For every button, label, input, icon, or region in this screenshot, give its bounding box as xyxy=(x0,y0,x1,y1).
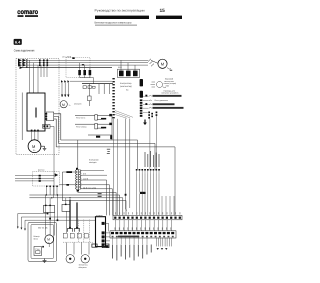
legend row 4 xyxy=(149,107,184,109)
controller left terminal column X3 xyxy=(112,78,114,118)
terminal strip X1 upper xyxy=(113,215,182,219)
dashed box around KM2 xyxy=(66,58,90,78)
svg-text:Схема подключения: Схема подключения xyxy=(14,48,35,52)
connector XP2 xyxy=(43,125,55,196)
contactor KM3 frame xyxy=(118,69,140,77)
svg-text:клеммы: клеммы xyxy=(96,215,103,217)
down arrow bold xyxy=(143,120,147,126)
relay KM1 coil xyxy=(43,205,54,212)
motor M4 xyxy=(42,235,53,248)
filter dashed box Z1 xyxy=(33,172,60,187)
svg-text:W1 V1 U1: W1 V1 U1 xyxy=(38,227,48,230)
svg-text:6.4: 6.4 xyxy=(15,41,21,45)
svg-text:Контроллер: Контроллер xyxy=(120,82,132,85)
wires KM2 taps xyxy=(80,63,94,84)
compressor unit outer box xyxy=(28,222,57,261)
breaker slashes QF2 xyxy=(148,59,158,67)
wire pairs below right of strip xyxy=(157,238,172,247)
terminal row X6 xyxy=(136,169,160,171)
svg-text:фильтр: фильтр xyxy=(38,169,44,172)
tiny wire labels xyxy=(98,193,102,197)
legend header text xyxy=(164,78,177,88)
wire bus L1 xyxy=(27,59,138,61)
wire bus L3 xyxy=(27,64,138,66)
motor M1 fan xyxy=(60,101,72,108)
svg-text:обогрев: обогрев xyxy=(74,103,81,106)
connector XP1 xyxy=(45,112,53,121)
capsule wires xyxy=(67,243,90,255)
svg-text:Винтовые воздушные компрессоры: Винтовые воздушные компрессоры xyxy=(95,21,132,25)
svg-text:M: M xyxy=(62,103,65,107)
motor M3 compressor xyxy=(28,140,41,153)
transformer input wires xyxy=(60,172,77,201)
wire N xyxy=(22,67,112,69)
arrow on bus xyxy=(82,64,85,66)
heater TEN box xyxy=(34,247,42,256)
transformer TV1 xyxy=(76,169,82,190)
relay KM2 coil xyxy=(62,204,70,211)
svg-text:comaro: comaro xyxy=(17,9,38,16)
verticals from lower bus xyxy=(46,195,67,236)
wires to main motor xyxy=(32,132,38,140)
svg-text:(компьютер): (компьютер) xyxy=(120,85,132,88)
wires from X2 xyxy=(105,223,110,241)
dashed verticals xyxy=(78,220,89,243)
wires controller leader diagonals xyxy=(115,111,133,119)
svg-text:Клеммная: Клеммная xyxy=(89,159,99,162)
svg-text:M: M xyxy=(161,62,164,67)
wire aux xyxy=(70,80,112,82)
contactor KM3 poles xyxy=(119,71,138,77)
heater sensor circle 1 xyxy=(66,255,74,263)
svg-text:внешних устройств: внешних устройств xyxy=(162,92,179,95)
transformer outputs xyxy=(80,170,107,175)
labels row between strips xyxy=(115,227,172,229)
tiny marks left of rails xyxy=(107,149,110,154)
svg-text:Реле вент.: Реле вент. xyxy=(76,116,86,119)
rail wires to terminal row xyxy=(56,140,175,215)
rotated labels below strip xyxy=(112,245,152,261)
legend row 1 xyxy=(145,95,181,97)
softstarter label xyxy=(35,108,37,118)
svg-text:Реле обогр.: Реле обогр. xyxy=(76,125,87,128)
black dash junction xyxy=(140,192,146,194)
strip X5 inner label xyxy=(118,236,139,238)
ground of M3 xyxy=(41,146,46,150)
heater components xyxy=(83,84,109,106)
controller drop pair xyxy=(126,119,130,211)
wires KM3 taps xyxy=(121,60,148,70)
svg-text:15: 15 xyxy=(160,8,166,14)
logo comaro xyxy=(17,9,38,17)
wire heater feed xyxy=(82,83,113,85)
legend row 3 xyxy=(145,103,174,105)
wires between strips xyxy=(116,220,172,231)
ground M4 xyxy=(43,259,47,263)
controller A1 block xyxy=(120,82,132,92)
header bar right xyxy=(156,16,182,19)
junction dots xyxy=(46,194,71,198)
compressor unit inner box xyxy=(31,224,54,258)
staircase corner wires into strip xyxy=(29,180,126,215)
junction tick xyxy=(72,57,74,59)
fan branch terminals xyxy=(61,80,69,82)
terminal strip X5 lower xyxy=(110,231,176,238)
mini connector cluster xyxy=(148,112,157,119)
svg-text:колодка: колодка xyxy=(89,161,97,164)
softstarter bottom terminals xyxy=(31,130,39,132)
section badge 6.4 xyxy=(14,39,22,45)
softstarter U1 box xyxy=(27,93,45,131)
sensor symbol horn xyxy=(151,82,167,88)
heater sensor circle 2 xyxy=(81,255,89,263)
X2 bottom box left xyxy=(92,244,97,247)
wires fan drop xyxy=(62,82,68,98)
rotated labels above row xyxy=(145,151,160,167)
motor M2 fan xyxy=(158,59,172,70)
header bar left xyxy=(95,16,149,19)
enclosure dashed box xyxy=(16,59,59,155)
controller bottom drops xyxy=(114,119,118,216)
controller relay outputs K1 K2 xyxy=(140,79,143,86)
filter wires xyxy=(15,176,57,198)
controller terminal column X4 xyxy=(140,99,143,116)
svg-text:сеть 380В: сеть 380В xyxy=(62,56,72,59)
svg-text:обогрева: обогрева xyxy=(79,266,88,269)
svg-text:Руководство по эксплуатации: Руководство по эксплуатации xyxy=(95,8,145,12)
X2 bottom box right xyxy=(102,244,109,248)
contact bars xyxy=(101,118,106,120)
thick wire A xyxy=(69,200,71,229)
wires from XP1 xyxy=(54,114,61,147)
input terminals L1 L2 L3 N xyxy=(18,59,27,69)
vertical feed to transformer xyxy=(77,140,79,169)
svg-text:Реле давления: Реле давления xyxy=(155,99,168,102)
legend row 2 xyxy=(149,99,168,102)
terminal box X2 xyxy=(96,217,106,247)
wires controller right stubs xyxy=(143,96,149,112)
wires below strip X5 labels xyxy=(113,238,147,244)
svg-text:блок: блок xyxy=(34,238,38,241)
dashed distribution line xyxy=(63,241,94,243)
cluster drop wires xyxy=(150,116,157,169)
ticks above strip X1 xyxy=(115,212,180,214)
small connector rects row xyxy=(63,233,88,238)
contactor KM2 poles xyxy=(78,70,91,75)
thick wire B xyxy=(76,202,78,228)
wires above strip X1 xyxy=(137,174,174,216)
header thin rule xyxy=(95,24,137,27)
wires down to softstarter xyxy=(30,60,48,93)
svg-text:M: M xyxy=(47,238,50,242)
enclosure inner line xyxy=(21,93,23,141)
relay fan contacts xyxy=(75,115,112,140)
svg-text:ТЭН: ТЭН xyxy=(35,248,40,251)
breaker QF1 xyxy=(39,59,48,66)
wire bus L2 xyxy=(27,62,138,64)
svg-text:Компр.: Компр. xyxy=(34,235,41,238)
bent wires to left with arrows xyxy=(18,214,96,229)
contact marks on thick wires xyxy=(68,228,80,231)
